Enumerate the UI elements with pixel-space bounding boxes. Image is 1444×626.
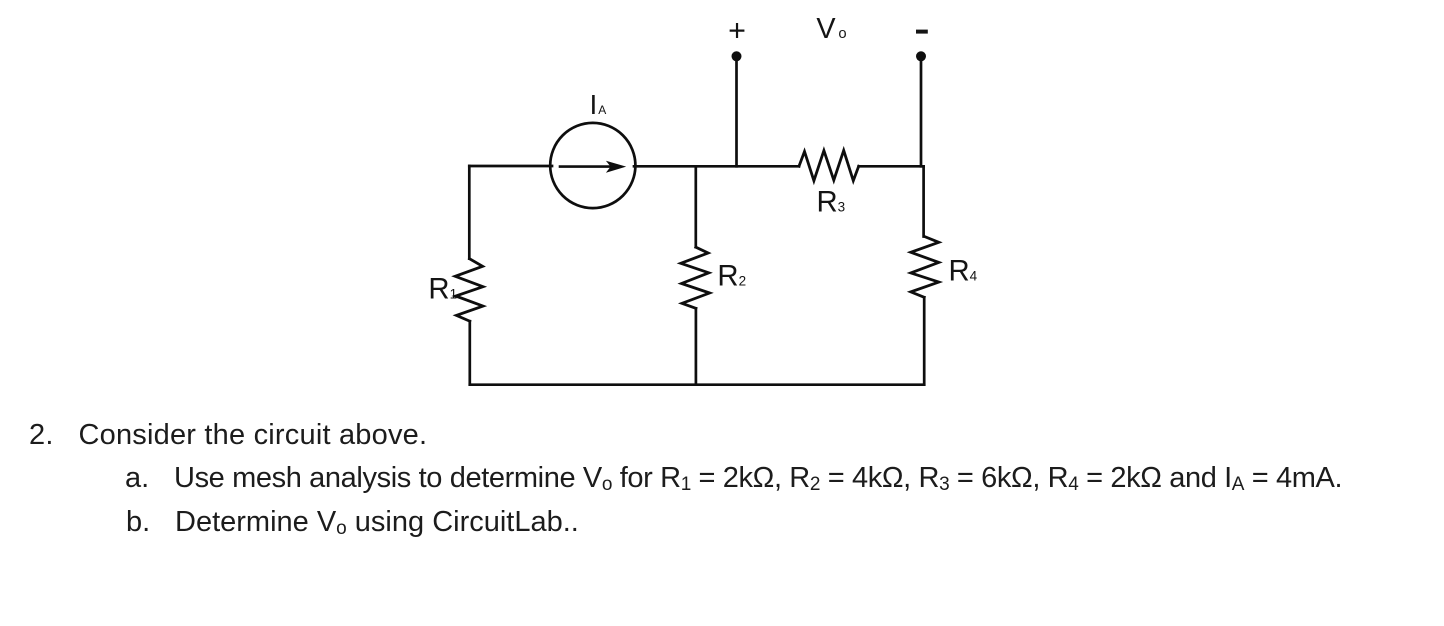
wire R2 bottom lead xyxy=(695,308,698,384)
node dot - terminal xyxy=(916,51,926,61)
problem text line 1 number xyxy=(29,421,54,450)
resistor R2 xyxy=(681,247,710,308)
problem text line 2 number xyxy=(125,464,149,493)
wire + terminal stub xyxy=(735,57,738,167)
wire bottom horizontal xyxy=(470,383,924,386)
svg-text:R2: R2 xyxy=(717,260,746,293)
svg-text:R4: R4 xyxy=(949,254,978,287)
wire R3-right to top-right corner xyxy=(859,165,924,168)
wire R2 top lead xyxy=(694,166,697,247)
wire R4 top lead xyxy=(922,166,925,236)
wire left vertical upper (R1 top lead) xyxy=(468,166,471,259)
problem text line 3 number xyxy=(126,508,150,537)
wire - terminal stub xyxy=(920,57,923,167)
problem text line 3 xyxy=(175,508,579,537)
problem text line 1 xyxy=(79,421,428,450)
label minus xyxy=(916,30,928,34)
svg-text:Vo: Vo xyxy=(816,13,846,45)
current source arrow xyxy=(560,161,626,173)
svg-text:R1: R1 xyxy=(428,272,457,305)
resistor R1 xyxy=(455,259,483,322)
node dot + terminal xyxy=(732,51,742,61)
current source IA circle xyxy=(550,123,635,208)
svg-text:IA: IA xyxy=(590,89,607,120)
wire top-left horizontal xyxy=(469,165,552,168)
svg-text:R3: R3 xyxy=(817,185,846,218)
problem text line 2 xyxy=(174,464,1342,493)
svg-text:+: + xyxy=(728,14,746,48)
resistor R3 xyxy=(799,150,859,180)
wire circle-right to R3 xyxy=(634,165,799,168)
wire R4 bottom lead xyxy=(923,297,926,384)
wire left vertical lower (R1 bottom lead) xyxy=(468,321,471,385)
resistor R4 xyxy=(911,237,939,298)
